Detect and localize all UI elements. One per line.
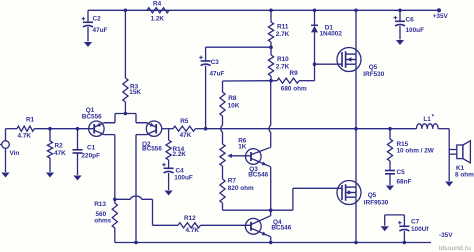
svg-text:BC556: BC556 bbox=[142, 146, 162, 153]
svg-text:R4: R4 bbox=[153, 1, 162, 8]
svg-text:47uF: 47uF bbox=[210, 71, 225, 78]
svg-text:680 ohm: 680 ohm bbox=[281, 85, 307, 92]
svg-text:R13: R13 bbox=[94, 201, 106, 208]
svg-text:47K: 47K bbox=[54, 150, 66, 157]
svg-text:100uF: 100uF bbox=[174, 175, 193, 182]
svg-text:-35V: -35V bbox=[439, 232, 453, 239]
svg-text:*: * bbox=[432, 115, 435, 121]
svg-text:C2: C2 bbox=[93, 16, 102, 23]
svg-text:C3: C3 bbox=[211, 59, 220, 66]
svg-text:R7: R7 bbox=[228, 178, 237, 185]
svg-text:BC546: BC546 bbox=[271, 225, 291, 232]
svg-text:1.2K: 1.2K bbox=[151, 16, 165, 23]
svg-text:ldsound.ru: ldsound.ru bbox=[439, 245, 471, 252]
svg-text:BC556: BC556 bbox=[82, 113, 102, 120]
svg-text:R2: R2 bbox=[55, 143, 64, 150]
svg-text:15K: 15K bbox=[129, 89, 141, 96]
svg-text:R9: R9 bbox=[290, 70, 299, 77]
svg-text:Vin: Vin bbox=[10, 150, 20, 157]
svg-text:100uF: 100uF bbox=[406, 27, 425, 34]
svg-text:Q5: Q5 bbox=[368, 192, 377, 199]
svg-text:1N4002: 1N4002 bbox=[320, 30, 343, 37]
svg-text:R1: R1 bbox=[26, 117, 35, 124]
svg-text:2.7K: 2.7K bbox=[276, 64, 290, 71]
svg-text:R8: R8 bbox=[228, 95, 237, 102]
svg-text:R10: R10 bbox=[277, 56, 289, 63]
svg-text:4.7K: 4.7K bbox=[18, 133, 32, 140]
svg-text:10K: 10K bbox=[228, 103, 240, 110]
svg-text:8 ohm: 8 ohm bbox=[455, 171, 474, 178]
svg-text:100Uf: 100Uf bbox=[411, 226, 429, 233]
svg-text:IRF530: IRF530 bbox=[363, 71, 384, 78]
svg-text:10 ohm / 2W: 10 ohm / 2W bbox=[397, 147, 435, 154]
svg-text:L1: L1 bbox=[423, 116, 431, 123]
svg-text:R12: R12 bbox=[184, 215, 196, 222]
svg-text:47uF: 47uF bbox=[93, 27, 108, 34]
svg-text:IRF9530: IRF9530 bbox=[364, 200, 389, 207]
svg-text:220pF: 220pF bbox=[82, 152, 101, 159]
svg-text:2.7K: 2.7K bbox=[276, 31, 290, 38]
svg-text:+35V: +35V bbox=[433, 13, 449, 20]
svg-text:C5: C5 bbox=[397, 169, 406, 176]
svg-text:1K: 1K bbox=[238, 144, 247, 151]
svg-text:Q5: Q5 bbox=[369, 64, 378, 71]
svg-text:C4: C4 bbox=[176, 167, 185, 174]
svg-text:R5: R5 bbox=[180, 118, 189, 125]
svg-text:68nF: 68nF bbox=[397, 178, 412, 185]
svg-text:BC546: BC546 bbox=[248, 171, 268, 178]
svg-text:4.7K: 4.7K bbox=[186, 227, 200, 234]
svg-text:C6: C6 bbox=[406, 16, 415, 23]
svg-text:C7: C7 bbox=[411, 219, 420, 226]
svg-text:ohms: ohms bbox=[94, 217, 111, 224]
svg-text:R11: R11 bbox=[277, 23, 289, 30]
svg-text:820 ohm: 820 ohm bbox=[228, 185, 254, 192]
svg-text:C1: C1 bbox=[87, 145, 96, 152]
svg-text:47K: 47K bbox=[180, 132, 192, 139]
svg-text:2.2K: 2.2K bbox=[173, 151, 187, 158]
